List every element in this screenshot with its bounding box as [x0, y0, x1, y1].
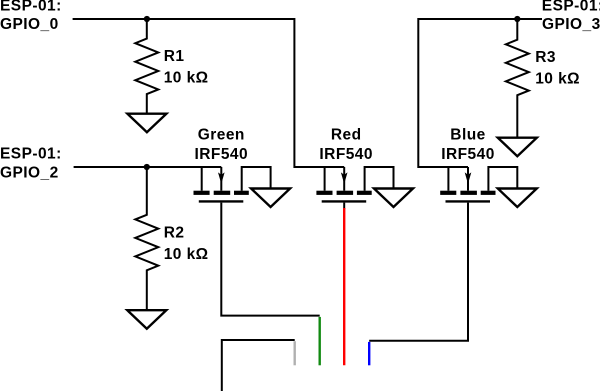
svg-text:10 kΩ: 10 kΩ	[535, 71, 580, 88]
pin drain lead	[201, 167, 203, 191]
wire GPIO_2 net (to Green MOSFET)	[74, 166, 222, 168]
wire Red gate stub (black)	[343, 203, 345, 209]
ground G3 (under R3)	[498, 138, 537, 157]
wire green conductor stub	[319, 317, 321, 365]
svg-text:Green: Green	[198, 126, 245, 143]
wire GPIO_3 net (top horizontal, down at x=418, to Blue gate wire)	[418, 19, 542, 167]
wire red conductor	[343, 208, 345, 365]
svg-text:R3: R3	[535, 49, 556, 66]
transistor Q3 Blue IRF540	[440, 126, 537, 207]
label R3 10 kΩ	[535, 49, 580, 87]
resistor R2	[135, 167, 158, 310]
node GPIO_0 label	[0, 0, 62, 33]
ground G2 (under R2)	[127, 310, 166, 329]
node GPIO_3 label	[542, 0, 600, 33]
transistor Q2 Red IRF540	[316, 126, 413, 207]
svg-text:10 kΩ: 10 kΩ	[164, 246, 209, 263]
wire GPIO_0 net (top horizontal, down at x=294, to Red gate wire)	[73, 19, 345, 167]
svg-text:10 kΩ: 10 kΩ	[164, 70, 209, 87]
svg-text:ESP-01:: ESP-01:	[542, 0, 600, 15]
wire white/gray conductor stub	[294, 341, 296, 365]
svg-text:R1: R1	[164, 48, 185, 65]
wire blue conductor stub	[368, 342, 370, 365]
label R1 10 kΩ	[164, 48, 209, 87]
svg-text:ESP-01:: ESP-01:	[0, 0, 62, 15]
svg-text:IRF540: IRF540	[195, 146, 249, 163]
svg-text:Red: Red	[331, 126, 362, 143]
svg-text:GPIO_3: GPIO_3	[542, 16, 600, 33]
svg-text:ESP-01:: ESP-01:	[0, 146, 62, 163]
resistor R3	[506, 19, 529, 138]
wire Blue gate to strip (black elbow)	[369, 203, 468, 341]
ground (Q1 source)	[251, 189, 290, 208]
node junction dot GPIO_2/R2	[144, 164, 150, 170]
node junction dot GPIO_0/R1	[144, 16, 150, 22]
svg-text:Blue: Blue	[450, 126, 485, 143]
pin source lead and jog to ground	[242, 167, 271, 191]
svg-text:IRF540: IRF540	[319, 146, 373, 163]
channel bars	[194, 191, 210, 195]
svg-text:R2: R2	[164, 224, 185, 241]
body arrow	[220, 167, 222, 191]
wire Green gate to strip (black elbow)	[221, 203, 319, 316]
svg-text:IRF540: IRF540	[441, 146, 495, 163]
wire supply from bottom edge (black elbow)	[222, 340, 295, 391]
label R2 10 kΩ	[164, 224, 209, 262]
resistor R1	[135, 19, 158, 114]
ground G1 (under R1)	[127, 114, 166, 133]
svg-text:GPIO_0: GPIO_0	[0, 16, 59, 33]
node junction dot GPIO_3/R3	[514, 16, 520, 22]
transistor Q1 Green IRF540	[194, 126, 291, 207]
svg-text:GPIO_2: GPIO_2	[0, 164, 59, 181]
node GPIO_2 label	[0, 146, 62, 182]
gate plate	[199, 200, 244, 202]
